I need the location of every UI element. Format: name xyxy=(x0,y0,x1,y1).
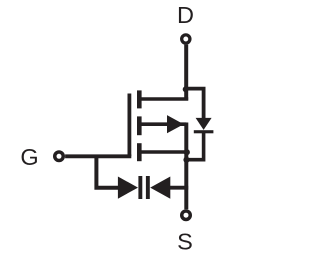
wire G branch to protection diodes xyxy=(96,156,118,187)
terminal S xyxy=(182,211,191,220)
protection diode Z1 cathode bar xyxy=(138,176,142,199)
wire source stub xyxy=(141,150,188,154)
body diode D1 cathode bar xyxy=(194,130,214,133)
wire body stub xyxy=(141,122,186,126)
mosfet Q1 channel source segment xyxy=(137,143,142,161)
svg-text:D: D xyxy=(177,2,194,28)
junction source stub node xyxy=(184,149,190,155)
wire body diode to source node xyxy=(186,133,203,160)
node drain junction xyxy=(183,86,189,92)
wire D terminal to drain node xyxy=(184,45,188,101)
wire source vertical xyxy=(184,123,188,210)
wire drain node to body diode xyxy=(184,89,204,119)
protection diode Z1 anode triangle xyxy=(118,177,138,199)
terminal G xyxy=(55,152,64,161)
body diode D1 anode triangle xyxy=(196,118,212,130)
mosfet Q1 gate electrode xyxy=(127,94,131,157)
wire drain stub xyxy=(141,97,188,101)
mosfet Q1 channel body segment xyxy=(137,116,142,135)
svg-text:S: S xyxy=(177,228,193,254)
mosfet Q1 body arrow xyxy=(167,115,184,133)
terminal D xyxy=(182,35,190,43)
wire protection diodes to source xyxy=(170,186,189,190)
protection diode Z2 anode triangle xyxy=(150,177,170,199)
protection diode Z2 cathode bar xyxy=(146,176,150,199)
mosfet Q1 channel drain segment xyxy=(137,90,142,108)
junction body diode node xyxy=(183,157,189,163)
svg-text:G: G xyxy=(20,144,38,170)
wire G terminal to gate xyxy=(65,154,131,158)
